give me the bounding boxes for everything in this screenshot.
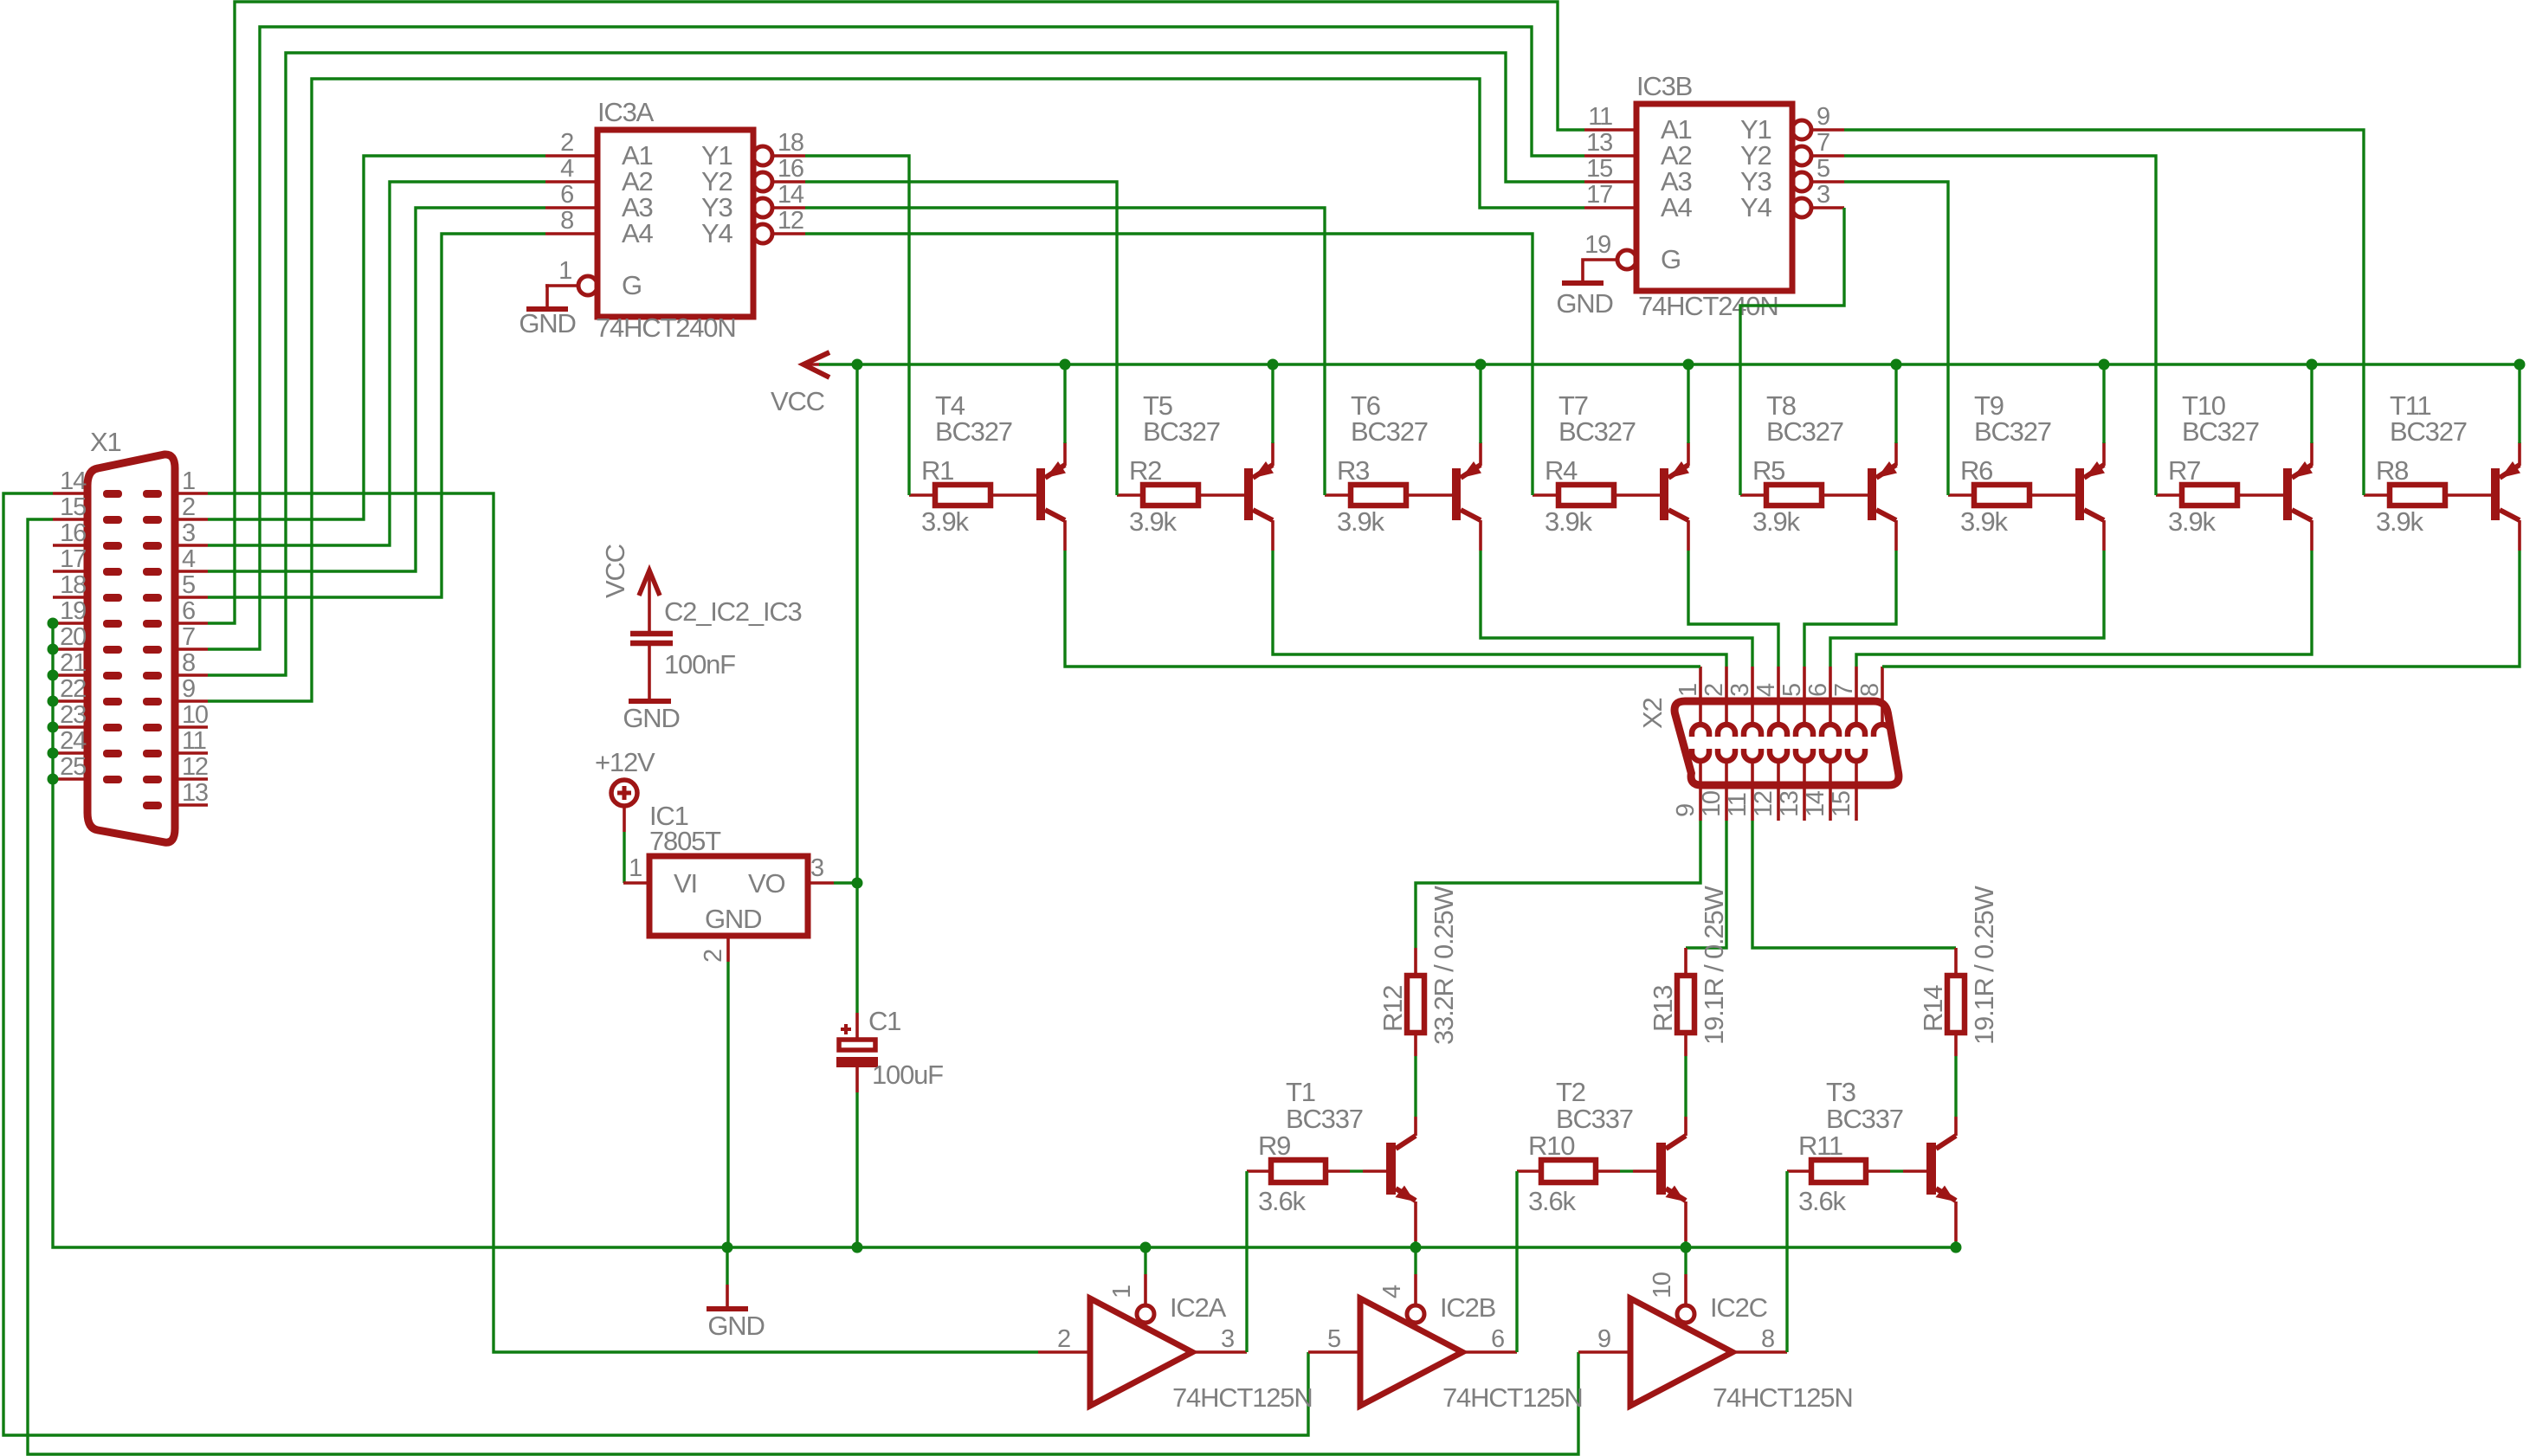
wire T6 emitter to VCC rail <box>1479 364 1481 443</box>
junction IC1 GND at rail <box>722 1242 733 1253</box>
svg-text:23: 23 <box>60 701 86 729</box>
IC3A output Y1 bubble + stub (pin 18) <box>753 146 772 165</box>
svg-text:GND: GND <box>623 703 679 733</box>
IC2B enable bubble (pin 4) <box>1407 1305 1424 1323</box>
svg-text:R6: R6 <box>1960 455 1992 486</box>
X1 pin 16 stub <box>53 544 87 547</box>
svg-text:8: 8 <box>1856 684 1884 697</box>
wire X1 pin 2 to IC3A A1 <box>208 156 545 519</box>
junction X1 pin 19 <box>48 618 59 629</box>
transistor T5 BC327 (PNP) <box>1244 468 1253 520</box>
svg-text:GND: GND <box>705 904 761 934</box>
IC IC3A 74HCT240N body <box>597 130 753 317</box>
svg-text:3.9k: 3.9k <box>1960 506 2008 537</box>
svg-text:1: 1 <box>182 467 195 495</box>
wire +12V to IC1 VI <box>623 832 625 883</box>
VCC arrow symbol above C2 <box>639 570 660 596</box>
svg-text:10: 10 <box>1649 1272 1676 1298</box>
svg-text:10: 10 <box>182 701 208 729</box>
capacitor C2_IC2_IC3 100nF <box>630 631 673 637</box>
ground symbol below IC1 <box>726 1247 728 1285</box>
svg-text:24: 24 <box>60 727 87 755</box>
junction X1 pin 25 <box>48 774 59 785</box>
junction T6 emitter at VCC rail <box>1475 359 1487 370</box>
svg-text:4: 4 <box>560 155 574 183</box>
wire IC2C enable to GND rail <box>1684 1247 1687 1274</box>
resistor R12 33.2R / 0.25W <box>1414 948 1417 976</box>
wire T8 collector to X2 pin 5 <box>1804 551 1896 667</box>
svg-text:BC327: BC327 <box>1351 416 1428 447</box>
X1 pin 5 stub <box>175 596 208 599</box>
wire X1 pin 4 to IC3A A3 <box>208 208 545 571</box>
svg-text:2: 2 <box>1700 684 1728 697</box>
IC2A enable bubble (pin 1) <box>1137 1305 1154 1323</box>
svg-text:16: 16 <box>778 155 803 183</box>
IC3B enable G bubble + stub (pin 19) <box>1617 250 1636 269</box>
X1 pin 11 stub <box>175 751 208 755</box>
IC2C input stub (pin 9) <box>1578 1350 1630 1354</box>
X1 pin 2 stub <box>175 518 208 521</box>
svg-text:3: 3 <box>182 519 195 547</box>
IC3A pin A3 stub (pin 6) <box>545 206 597 209</box>
X1 pin 17 stub <box>53 570 87 573</box>
X1 pin 1 stub <box>175 492 208 495</box>
wire X2 pin 9 to R12 <box>1416 821 1700 948</box>
svg-text:R7: R7 <box>2168 455 2200 486</box>
svg-text:74HCT125N: 74HCT125N <box>1172 1382 1313 1413</box>
svg-text:GND: GND <box>519 308 575 338</box>
junction T5 emitter at VCC rail <box>1268 359 1279 370</box>
svg-text:R1: R1 <box>921 455 953 486</box>
resistor R11 3.6k <box>1787 1169 1811 1173</box>
IC3A pin A4 stub (pin 8) <box>545 232 597 235</box>
X1 pin 7 stub <box>175 647 208 651</box>
wire IC2B enable to GND rail <box>1414 1247 1416 1274</box>
svg-text:BC337: BC337 <box>1826 1104 1903 1134</box>
resistor R2 3.9k <box>1117 493 1143 497</box>
svg-text:R5: R5 <box>1752 455 1784 486</box>
IC3A output Y2 bubble + stub (pin 16) <box>753 172 772 191</box>
+12V supply symbol <box>611 780 637 806</box>
svg-text:17: 17 <box>1586 181 1612 209</box>
svg-text:74HCT240N: 74HCT240N <box>596 312 736 343</box>
svg-text:BC327: BC327 <box>1974 416 2051 447</box>
junction T11 emitter at VCC rail <box>2514 359 2526 370</box>
svg-text:16: 16 <box>60 519 86 547</box>
wire X2 pin 10 to R13 <box>1686 821 1726 948</box>
wire IC1 VO to VCC node <box>834 881 857 884</box>
wire T9 emitter to VCC rail <box>2102 364 2105 443</box>
X1 pin 20 stub <box>53 647 87 651</box>
junction T10 emitter at VCC rail <box>2307 359 2318 370</box>
junction X1 pin 23 <box>48 722 59 733</box>
svg-text:3.9k: 3.9k <box>1545 506 1592 537</box>
IC3B pin A1 stub (pin 11) <box>1584 128 1636 132</box>
IC IC3B 74HCT240N body <box>1636 104 1792 291</box>
svg-text:BC327: BC327 <box>1766 416 1843 447</box>
connector X2 (DB15) body <box>1675 701 1899 785</box>
wire T9 collector to X2 pin 6 <box>1830 551 2104 667</box>
svg-text:R2: R2 <box>1129 455 1161 486</box>
svg-text:6: 6 <box>1491 1325 1504 1353</box>
junction IC2A enable at GND rail <box>1140 1242 1152 1253</box>
X2 pin 11 <box>1744 749 1761 761</box>
wire IC3B Y4 to R5 <box>1740 208 1844 495</box>
X2 pin 2 <box>1725 667 1728 725</box>
svg-text:1: 1 <box>558 257 571 285</box>
X2 pin 5 <box>1803 667 1806 725</box>
ground symbol at IC3B G <box>1583 260 1584 281</box>
svg-text:1: 1 <box>629 854 642 882</box>
IC3B output Y1 bubble + stub (pin 9) <box>1792 120 1811 139</box>
X2 pin 4 <box>1777 667 1780 725</box>
svg-text:9: 9 <box>1672 804 1700 817</box>
wire X1 pin 5 to IC3A A4 <box>208 234 545 597</box>
wire IC3A Y2 to R2 <box>805 182 1117 495</box>
wire R13 to transistor collector <box>1684 1056 1687 1117</box>
VCC supply arrow <box>803 352 829 377</box>
svg-text:13: 13 <box>1586 129 1612 157</box>
svg-text:R9: R9 <box>1258 1131 1290 1161</box>
wire T1 emitter to GND rail <box>1414 1241 1416 1247</box>
resistor R6 3.9k <box>1948 493 1974 497</box>
svg-text:10: 10 <box>1698 791 1726 817</box>
X1 pin 3 stub <box>175 544 208 547</box>
svg-text:20: 20 <box>60 623 86 651</box>
resistor R14 19.1R / 0.25W <box>1954 948 1958 976</box>
ground symbol at IC3A G <box>545 286 547 307</box>
wire T6 collector to X2 pin 3 <box>1481 551 1752 667</box>
junction T7 emitter at VCC rail <box>1683 359 1694 370</box>
IC2B output stub (pin 6) <box>1462 1350 1517 1354</box>
wire X1 pin 8 to IC3B A3 <box>208 53 1584 675</box>
svg-text:VI: VI <box>674 868 697 899</box>
svg-text:12: 12 <box>778 207 803 235</box>
svg-text:3.6k: 3.6k <box>1528 1186 1576 1216</box>
svg-text:19.1R / 0.25W: 19.1R / 0.25W <box>1699 886 1729 1045</box>
wire R11 to T3 base <box>1890 1169 1903 1172</box>
svg-text:100nF: 100nF <box>664 649 735 680</box>
svg-text:7: 7 <box>1816 129 1829 157</box>
wire IC2A enable to GND rail <box>1144 1247 1146 1274</box>
svg-text:15: 15 <box>60 493 86 521</box>
IC2A input stub (pin 2) <box>1038 1350 1090 1354</box>
X1 pin 18 stub <box>53 596 87 599</box>
junction X1 pin 20 <box>48 644 59 655</box>
svg-text:14: 14 <box>1802 790 1829 817</box>
wire R9 to T1 base <box>1350 1169 1363 1172</box>
junction T8 emitter at VCC rail <box>1891 359 1902 370</box>
svg-text:11: 11 <box>1724 793 1752 817</box>
IC1 pin 1 stub <box>623 881 649 885</box>
resistor R8 3.9k <box>2364 493 2390 497</box>
svg-text:5: 5 <box>182 571 195 599</box>
wire IC1 GND pin to GND rail <box>726 962 729 1247</box>
X2 pin 3 <box>1751 667 1754 725</box>
X1 pin 13 stub <box>175 803 208 807</box>
resistor R10 3.6k <box>1517 1169 1541 1173</box>
svg-text:2: 2 <box>182 493 195 521</box>
wire X1 pin 14 to IC2B input <box>3 493 1308 1435</box>
svg-text:A4: A4 <box>1661 192 1692 222</box>
wire VCC node up to VCC rail <box>855 364 858 883</box>
wire T5 emitter to VCC rail <box>1271 364 1274 443</box>
X1 pin 4 stub <box>175 570 208 573</box>
X1 pin 8 stub <box>175 673 208 677</box>
svg-text:5: 5 <box>1816 155 1829 183</box>
X2 pin 15 <box>1848 749 1865 761</box>
X2 pin 6 <box>1829 667 1832 725</box>
svg-text:12: 12 <box>1750 791 1778 817</box>
svg-text:1: 1 <box>1675 684 1702 697</box>
svg-text:4: 4 <box>1378 1285 1406 1298</box>
svg-text:11: 11 <box>1588 103 1612 131</box>
svg-text:IC2A: IC2A <box>1170 1292 1227 1323</box>
svg-text:14: 14 <box>60 467 87 495</box>
svg-text:18: 18 <box>778 129 803 157</box>
wire IC3B Y2 to R7 <box>1844 156 2156 495</box>
svg-text:T3: T3 <box>1826 1077 1855 1107</box>
transistor T3 BC337 (NPN) <box>1926 1143 1936 1195</box>
IC IC1 7805T body <box>649 856 808 936</box>
svg-text:BC337: BC337 <box>1556 1104 1633 1134</box>
svg-text:BC327: BC327 <box>1143 416 1220 447</box>
svg-text:7: 7 <box>182 623 195 651</box>
resistor R7 3.9k <box>2156 493 2182 497</box>
svg-text:3: 3 <box>1726 684 1754 697</box>
X1 pin 14 stub <box>53 492 87 495</box>
X1 pin 21 stub <box>53 673 87 677</box>
IC2C enable bubble (pin 10) <box>1677 1305 1694 1323</box>
junction T2 emitter at GND rail <box>1681 1242 1692 1253</box>
junction T4 emitter at VCC rail <box>1060 359 1071 370</box>
svg-text:13: 13 <box>1776 791 1804 817</box>
svg-text:3: 3 <box>1221 1325 1234 1353</box>
transistor T6 BC327 (PNP) <box>1452 468 1461 520</box>
X1 pin 15 stub <box>53 518 87 521</box>
buffer IC2A 74HCT125N triangle <box>1090 1298 1192 1406</box>
wire X1 pins 19-25 GND chain to GND rail <box>53 623 727 1247</box>
svg-text:VCC: VCC <box>600 544 630 598</box>
IC3B pin A2 stub (pin 13) <box>1584 154 1636 158</box>
junction X1 pin 24 <box>48 748 59 759</box>
svg-text:3.6k: 3.6k <box>1258 1186 1306 1216</box>
transistor T8 BC327 (PNP) <box>1868 468 1876 520</box>
wire X2 pin 11 to R14 <box>1752 821 1956 948</box>
svg-text:3.9k: 3.9k <box>2168 506 2216 537</box>
svg-text:3.9k: 3.9k <box>1752 506 1800 537</box>
svg-text:15: 15 <box>1586 155 1612 183</box>
X1 pin 23 stub <box>53 725 87 729</box>
svg-text:17: 17 <box>60 545 86 573</box>
X2 pin 13 <box>1796 749 1813 761</box>
wire IC2C output to R11 <box>1785 1171 1788 1352</box>
resistor R3 3.9k <box>1325 493 1351 497</box>
wire T10 collector to X2 pin 7 <box>1856 551 2312 667</box>
wire IC3A Y1 to R1 <box>805 156 909 495</box>
wire R10 to T2 base <box>1620 1169 1633 1172</box>
svg-text:21: 21 <box>60 649 86 677</box>
wire T11 emitter to VCC rail <box>2518 364 2520 443</box>
wire VCC node to C1 + <box>855 883 858 1013</box>
wire R12 to transistor collector <box>1414 1056 1416 1117</box>
X2 pin 14 <box>1822 749 1839 761</box>
IC3B output Y2 bubble + stub (pin 7) <box>1792 146 1811 165</box>
resistor R5 3.9k <box>1740 493 1766 497</box>
IC3B pin A3 stub (pin 15) <box>1584 180 1636 184</box>
svg-text:R12: R12 <box>1378 986 1408 1032</box>
svg-text:BC327: BC327 <box>2182 416 2259 447</box>
wire X1 pin 9 to IC3B A4 <box>208 79 1584 701</box>
wire GND rail <box>727 1246 1956 1248</box>
connector X1 (DB25) body <box>87 454 175 842</box>
svg-text:4: 4 <box>1752 683 1780 697</box>
svg-text:2: 2 <box>560 129 573 157</box>
svg-text:X2: X2 <box>1637 698 1668 729</box>
svg-text:X1: X1 <box>90 427 121 457</box>
IC3A output Y4 bubble + stub (pin 12) <box>753 224 772 243</box>
wire T10 emitter to VCC rail <box>2310 364 2313 443</box>
transistor T2 BC337 (NPN) <box>1656 1143 1666 1195</box>
X1 pin 25 stub <box>53 777 87 781</box>
wire T11 collector to X2 pin 8 <box>1882 551 2520 667</box>
svg-text:IC2B: IC2B <box>1440 1292 1496 1323</box>
svg-text:GND: GND <box>707 1311 764 1341</box>
X1 pin 12 stub <box>175 777 208 781</box>
wire IC3A Y3 to R3 <box>805 208 1325 495</box>
wire X1 pin 6 to IC3B A1 <box>208 2 1584 623</box>
svg-text:IC3A: IC3A <box>597 97 655 127</box>
svg-text:5: 5 <box>1778 684 1806 697</box>
svg-text:Y4: Y4 <box>1740 192 1771 222</box>
svg-text:R13: R13 <box>1648 986 1678 1032</box>
wire X1 pin 1 to IC2A input <box>208 493 1038 1352</box>
svg-text:14: 14 <box>778 181 804 209</box>
transistor T1 BC337 (NPN) <box>1386 1143 1396 1195</box>
IC2B input stub (pin 5) <box>1308 1350 1360 1354</box>
resistor R4 3.9k <box>1533 493 1558 497</box>
IC3B output Y3 bubble + stub (pin 5) <box>1792 172 1811 191</box>
svg-text:9: 9 <box>182 675 195 703</box>
svg-text:BC327: BC327 <box>2390 416 2467 447</box>
X2 pin 8 <box>1881 667 1884 725</box>
wire IC2A output to R9 <box>1245 1171 1248 1352</box>
svg-text:BC327: BC327 <box>935 416 1012 447</box>
junction X1 pin 21 <box>48 670 59 681</box>
junction T3 emitter at GND rail <box>1951 1242 1962 1253</box>
svg-text:7805T: 7805T <box>649 826 721 856</box>
svg-text:8: 8 <box>182 649 195 677</box>
IC3A enable G bubble + stub (pin 1) <box>578 276 597 295</box>
wire T4 emitter to VCC rail <box>1063 364 1066 443</box>
svg-text:2: 2 <box>700 950 727 963</box>
buffer IC2B 74HCT125N triangle <box>1360 1298 1462 1406</box>
svg-text:22: 22 <box>60 675 86 703</box>
svg-text:T1: T1 <box>1286 1077 1315 1107</box>
svg-text:BC327: BC327 <box>1558 416 1636 447</box>
svg-text:12: 12 <box>182 753 208 781</box>
svg-text:R4: R4 <box>1545 455 1578 486</box>
wire T5 collector to X2 pin 2 <box>1273 551 1726 667</box>
wire C1 - to GND rail <box>855 1092 858 1247</box>
IC3A output Y3 bubble + stub (pin 14) <box>753 198 772 217</box>
junction VCC rail <box>852 359 863 370</box>
svg-text:3: 3 <box>1816 181 1829 209</box>
svg-text:19: 19 <box>60 597 86 625</box>
ground symbol below C2 <box>629 699 671 704</box>
svg-text:IC2C: IC2C <box>1710 1292 1768 1323</box>
resistor R9 3.6k <box>1247 1169 1271 1173</box>
svg-text:C1: C1 <box>868 1006 900 1036</box>
svg-text:3: 3 <box>810 854 823 882</box>
svg-text:6: 6 <box>1804 684 1832 697</box>
svg-text:G: G <box>622 270 642 300</box>
svg-text:5: 5 <box>1327 1325 1340 1353</box>
svg-text:R10: R10 <box>1528 1131 1575 1161</box>
wire T3 emitter to GND rail <box>1954 1241 1957 1247</box>
wire VCC rail <box>819 363 2520 365</box>
svg-text:74HCT125N: 74HCT125N <box>1713 1382 1853 1413</box>
IC2A output stub (pin 3) <box>1192 1350 1247 1354</box>
IC1 pin 2 stub <box>726 936 730 962</box>
X1 pin 6 stub <box>175 622 208 625</box>
svg-text:Y4: Y4 <box>701 218 732 248</box>
svg-text:1: 1 <box>1108 1285 1136 1298</box>
wire T7 emitter to VCC rail <box>1687 364 1689 443</box>
svg-text:3.9k: 3.9k <box>2376 506 2423 537</box>
wire T8 emitter to VCC rail <box>1894 364 1897 443</box>
svg-text:19.1R / 0.25W: 19.1R / 0.25W <box>1969 886 1999 1045</box>
junction C1 at GND rail <box>852 1242 863 1253</box>
svg-text:BC337: BC337 <box>1286 1104 1363 1134</box>
svg-text:G: G <box>1661 244 1681 274</box>
svg-text:18: 18 <box>60 571 86 599</box>
X2 pin 7 <box>1855 667 1858 725</box>
transistor T4 BC327 (PNP) <box>1036 468 1045 520</box>
svg-text:GND: GND <box>1556 288 1612 319</box>
transistor T10 BC327 (PNP) <box>2283 468 2292 520</box>
svg-text:R3: R3 <box>1337 455 1369 486</box>
svg-text:6: 6 <box>560 181 573 209</box>
svg-text:T2: T2 <box>1556 1077 1585 1107</box>
wire T4 collector to X2 pin 1 <box>1065 551 1700 667</box>
wire IC3B Y3 to R6 <box>1844 182 1948 495</box>
wire X1 pin 3 to IC3A A2 <box>208 182 545 545</box>
wire IC3B Y1 to R8 <box>1844 130 2364 495</box>
wire T7 collector to X2 pin 4 <box>1688 551 1778 667</box>
resistor R13 19.1R / 0.25W <box>1684 948 1687 976</box>
transistor T11 BC327 (PNP) <box>2491 468 2500 520</box>
svg-text:13: 13 <box>182 779 208 807</box>
X1 pin 22 stub <box>53 699 87 703</box>
X2 pin 9 <box>1692 749 1709 761</box>
svg-text:3.9k: 3.9k <box>1337 506 1384 537</box>
svg-text:A4: A4 <box>622 218 653 248</box>
wire X1 pin 7 to IC3B A2 <box>208 27 1584 649</box>
IC2C output stub (pin 8) <box>1733 1350 1787 1354</box>
svg-text:3.9k: 3.9k <box>921 506 969 537</box>
junction T1 emitter at GND rail <box>1410 1242 1422 1253</box>
svg-text:R11: R11 <box>1798 1131 1842 1161</box>
transistor T9 BC327 (PNP) <box>2075 468 2084 520</box>
svg-text:R14: R14 <box>1918 985 1948 1032</box>
svg-text:25: 25 <box>60 753 86 781</box>
IC3B output Y4 bubble + stub (pin 3) <box>1792 198 1811 217</box>
junction IC1 VO / C1 / VCC <box>852 878 863 889</box>
svg-text:74HCT125N: 74HCT125N <box>1442 1382 1583 1413</box>
junction T9 emitter at VCC rail <box>2099 359 2110 370</box>
buffer IC2C 74HCT125N triangle <box>1630 1298 1733 1406</box>
